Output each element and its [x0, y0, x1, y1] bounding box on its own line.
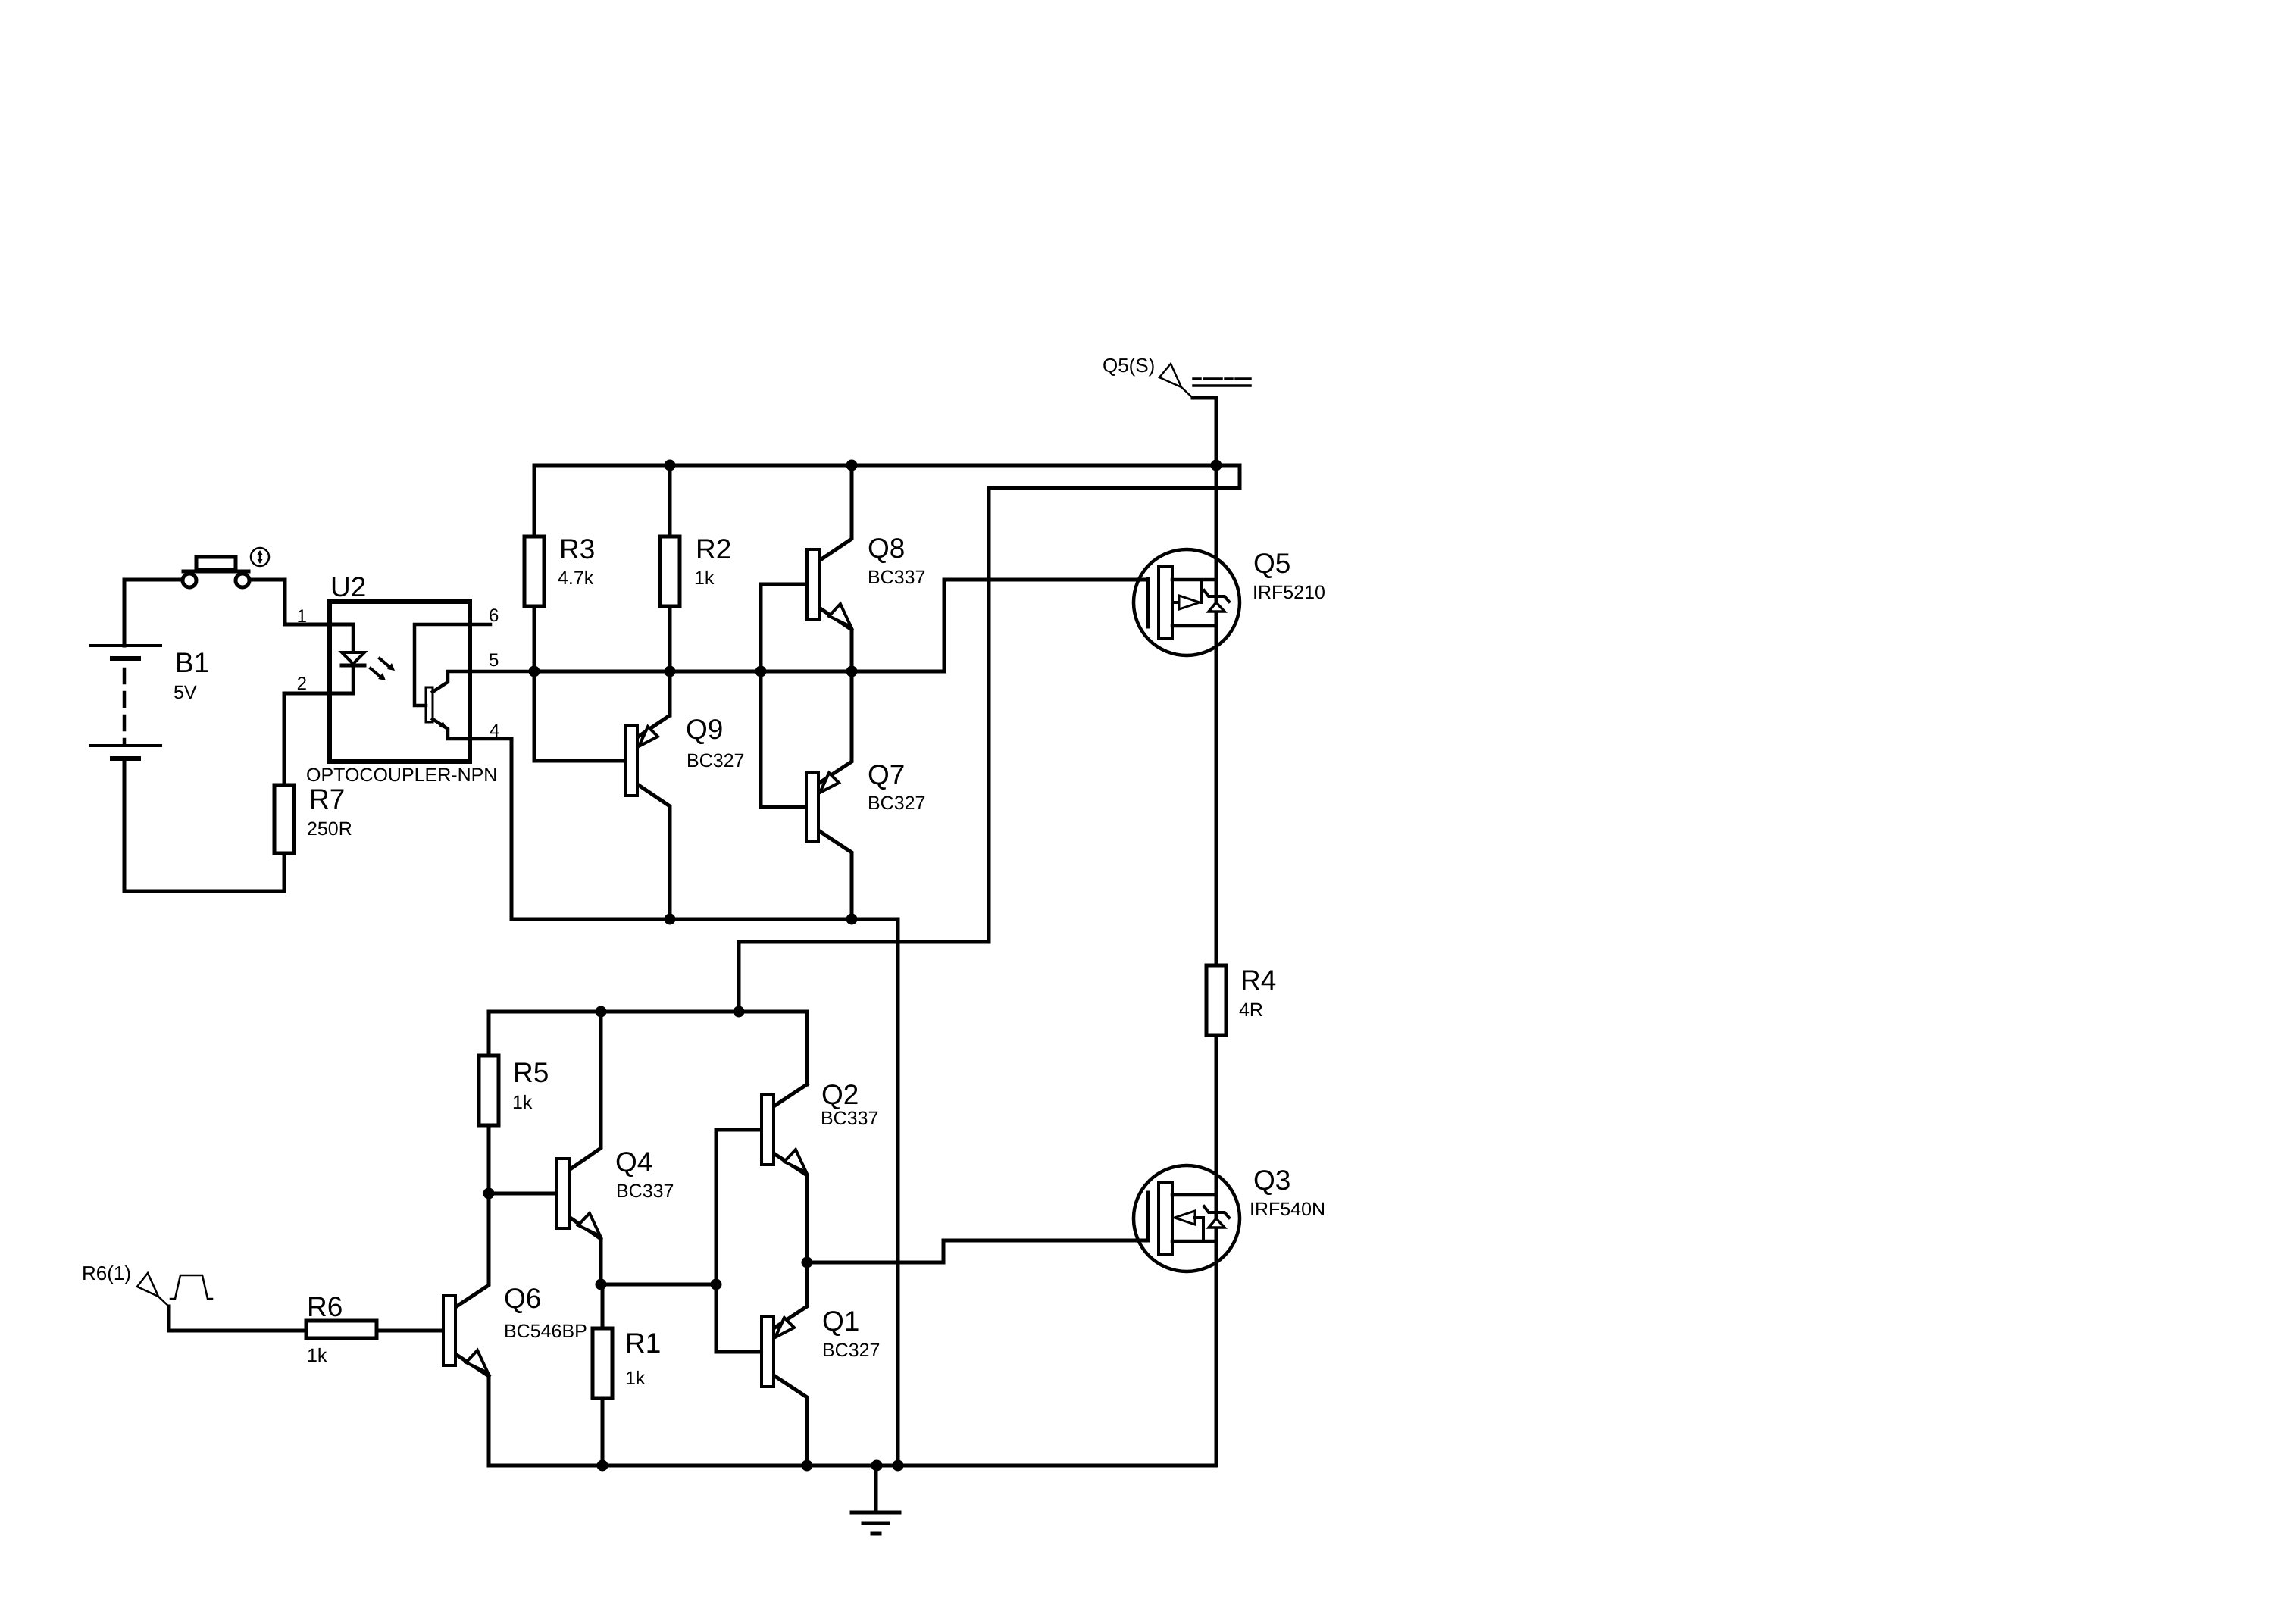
resistor R5 1k — [479, 1056, 499, 1125]
U2 base wire to pin 6 — [414, 624, 490, 705]
ground bar 3 — [872, 1532, 880, 1536]
Q1 collector — [774, 1375, 807, 1465]
resistor R1 1k — [593, 1328, 612, 1398]
Q5(S) dc marker dashed — [1193, 377, 1250, 380]
Q1 emitter — [774, 1262, 807, 1328]
Q5(S) wire stub — [1193, 398, 1216, 465]
Q1 bar — [762, 1317, 774, 1387]
transistor Q4 BC337 — [489, 1012, 601, 1284]
button terminal circle right — [236, 574, 249, 587]
battery B1 — [90, 580, 182, 759]
Q3 substrate arrow — [1175, 1211, 1195, 1225]
svg-text:1k: 1k — [307, 1345, 327, 1366]
lower rail node — [489, 1012, 807, 1084]
Q9 collector — [637, 784, 670, 919]
Q6 emitter — [455, 1354, 489, 1376]
Q3 drain stub — [1172, 1193, 1216, 1197]
U2 box — [330, 602, 470, 762]
svg-text:2: 2 — [297, 674, 307, 694]
svg-text:5V: 5V — [174, 682, 197, 703]
ground stub — [874, 1465, 878, 1512]
Q2 emitter arrow — [784, 1150, 806, 1172]
Q7 emitter — [818, 671, 852, 784]
Q4 emitter arrow — [578, 1213, 600, 1236]
junction R2 bottom / Q9 emitter — [665, 666, 676, 677]
svg-text:4.7k: 4.7k — [558, 568, 594, 589]
Q3 channel bar — [1159, 1183, 1172, 1255]
Q3 body diode cathode — [1204, 1206, 1229, 1218]
resistor R7 250R — [274, 785, 294, 853]
junction U2 pin5 / R3 node — [529, 666, 540, 677]
Q5 gate entry — [1134, 578, 1148, 582]
Q2 bar — [762, 1095, 774, 1165]
node rail pin5 y886 — [534, 670, 852, 674]
Q6 emitter arrow — [466, 1350, 488, 1373]
U2 LED cathode wire — [352, 665, 355, 693]
rail y1213 pin4 node and drop to ground — [511, 739, 898, 1465]
junction lower rail / feed from upper block — [734, 1006, 745, 1018]
svg-text:BC327: BC327 — [822, 1340, 880, 1361]
top rail VCC-upper with jog to lower block — [534, 465, 1240, 1012]
svg-text:Q1: Q1 — [822, 1306, 859, 1337]
Q8 emitter arrow — [829, 604, 851, 627]
junction ground rail / Q1 collector — [802, 1460, 813, 1472]
U2 LED diode — [342, 652, 364, 664]
ground symbol — [852, 1465, 899, 1534]
U2 emitter arrow — [439, 721, 448, 729]
svg-text:B1: B1 — [175, 647, 209, 678]
R6(1) probe triangle — [137, 1273, 158, 1297]
svg-text:Q7: Q7 — [868, 759, 905, 790]
svg-text:BC337: BC337 — [616, 1181, 674, 1202]
ground bar 2 — [863, 1522, 888, 1525]
battery plate short top — [112, 656, 139, 661]
Q7 base wire — [761, 671, 806, 807]
svg-text:1k: 1k — [694, 568, 715, 589]
wire Q8/Q7 node to Q5 gate — [852, 580, 1148, 671]
Q3 gate entry — [1134, 1239, 1148, 1243]
junction Q8/Q7 emitters to Q5 gate — [846, 666, 858, 677]
Q2 emitter — [774, 1153, 807, 1262]
svg-text:Q4: Q4 — [615, 1146, 652, 1178]
button terminal circle left — [183, 574, 196, 587]
svg-text:Q3: Q3 — [1253, 1165, 1290, 1196]
junction rail y1213 / Q9 collector — [665, 914, 676, 925]
Q5 drain-source line inside — [1215, 549, 1218, 655]
junction lower rail / Q4 collector — [596, 1006, 607, 1018]
U2 light arrow 1 — [380, 658, 389, 667]
U2 phototransistor base bar — [426, 687, 433, 722]
R1 chain — [601, 1284, 605, 1465]
Q1 emitter arrow — [775, 1318, 794, 1337]
battery plate short bottom — [112, 756, 139, 761]
svg-text:R5: R5 — [513, 1057, 549, 1088]
push button SW — [183, 548, 269, 587]
optocoupler U2 — [330, 602, 534, 762]
svg-text:R7: R7 — [309, 784, 345, 815]
svg-text:OPTOCOUPLER-NPN: OPTOCOUPLER-NPN — [306, 765, 497, 786]
Q3 drain-source line inside — [1215, 1165, 1218, 1271]
main vertical drain line x1605 and ground rail — [489, 465, 1216, 1465]
svg-text:Q5: Q5 — [1253, 548, 1290, 579]
R5 chain down to Q6 collector — [455, 1012, 489, 1307]
svg-text:4: 4 — [490, 721, 499, 741]
junction top rail / R2 — [665, 460, 676, 471]
battery plate long top — [90, 644, 161, 647]
Q6 bar — [443, 1296, 455, 1365]
svg-text:Q6: Q6 — [504, 1283, 541, 1314]
node wire y1695 Q4emitter-R1-bases — [601, 1283, 716, 1287]
Q5 gate electrode — [1146, 579, 1150, 627]
button actuator — [196, 557, 236, 570]
svg-text:Q9: Q9 — [686, 714, 723, 745]
Q7 bar — [806, 772, 818, 842]
Q8 emitter — [819, 608, 852, 671]
Q3 circle — [1134, 1165, 1240, 1271]
Q4 bar — [557, 1159, 569, 1228]
svg-text:1k: 1k — [625, 1368, 646, 1389]
resistor R4 4R — [1206, 965, 1226, 1035]
terminal Q5(S) probe — [1159, 364, 1250, 465]
wire Q2/Q1 common base — [716, 1130, 762, 1352]
Q5(S) probe triangle — [1159, 364, 1181, 387]
svg-text:BC327: BC327 — [687, 750, 744, 771]
Q9 emitter — [637, 671, 670, 737]
R6(1) probe lead — [158, 1297, 170, 1307]
U2 collector wire to pin 5 — [433, 671, 534, 692]
svg-text:5: 5 — [489, 650, 499, 671]
Q4 collector — [569, 1012, 601, 1170]
Q5 body diode anode — [1209, 602, 1225, 612]
wire U2 pin2 to R7 — [284, 693, 353, 785]
Q9 emitter arrow — [639, 727, 658, 746]
junction Q4 emitter / R1 top — [596, 1279, 607, 1290]
transistor Q1 BC327 — [762, 1262, 807, 1465]
svg-text:6: 6 — [489, 605, 499, 626]
svg-text:Q2: Q2 — [821, 1079, 859, 1110]
junction R5 / Q4 base / Q6 collector — [483, 1188, 495, 1200]
TEXT_START — [82, 354, 1325, 1389]
wire battery top to button — [124, 580, 182, 646]
Q8 collector — [819, 465, 852, 561]
mosfet Q5 IRF5210 — [1134, 549, 1240, 655]
svg-text:R2: R2 — [696, 533, 731, 565]
button contact bar — [183, 570, 249, 574]
Q3 source stub — [1172, 1240, 1216, 1243]
junction top rail / Q8 collector — [846, 460, 858, 471]
R6(1) pulse icon — [170, 1275, 212, 1299]
junction rail y1213 / Q7 collector — [846, 914, 858, 925]
junction top rail / Q5 source — [1211, 460, 1222, 471]
resistor R6 1k — [306, 1321, 377, 1338]
svg-text:1: 1 — [297, 606, 307, 627]
wire input to R6 to Q6 base — [169, 1306, 443, 1331]
Q5 circle — [1134, 549, 1240, 655]
Q5 channel bar — [1159, 567, 1172, 639]
wire output node to Q3 gate — [807, 1240, 1134, 1262]
svg-text:BC337: BC337 — [868, 567, 925, 588]
Q5 substrate arrow — [1172, 601, 1179, 604]
svg-text:Q5(S): Q5(S) — [1103, 354, 1155, 377]
Q5 source stub — [1172, 624, 1216, 628]
mosfet Q3 IRF540N — [1134, 1165, 1240, 1271]
svg-text:IRF5210: IRF5210 — [1253, 582, 1325, 603]
wire button to U2 pin1 — [249, 580, 353, 624]
Q7 collector — [818, 830, 852, 919]
svg-text:BC327: BC327 — [868, 793, 925, 814]
svg-text:Q8: Q8 — [868, 533, 905, 564]
U2 LED anode wire — [352, 624, 355, 652]
resistor R2 1k — [660, 536, 680, 606]
junction output node Q2/Q1 emitters — [802, 1257, 813, 1268]
terminal R6(1) input probe — [137, 1273, 212, 1307]
transistor Q7 BC327 — [761, 671, 852, 919]
Q5(S) dc marker solid — [1193, 384, 1250, 387]
Q5 drain stub — [1172, 578, 1216, 582]
Q3 gate electrode — [1146, 1193, 1150, 1240]
svg-text:BC337: BC337 — [821, 1108, 878, 1129]
transistor Q6 BC546BP — [443, 1296, 489, 1376]
ground bar 1 — [852, 1511, 899, 1515]
R2 chain — [668, 465, 672, 715]
junction ground rail / R1 bottom — [597, 1460, 608, 1472]
transistor Q8 BC337 — [761, 465, 852, 671]
Q3 body diode anode — [1209, 1218, 1225, 1228]
svg-text:R1: R1 — [625, 1328, 661, 1359]
svg-text:R6(1): R6(1) — [82, 1262, 131, 1284]
svg-text:1k: 1k — [512, 1092, 533, 1113]
transistor Q9 BC327 — [625, 671, 670, 919]
U2 light arrow 2 — [371, 668, 380, 677]
Q4 base wire — [489, 1192, 557, 1196]
svg-text:R3: R3 — [559, 533, 595, 565]
Q5 body diode cathode — [1204, 590, 1229, 602]
junction ground rail / drop from rail y1213 — [893, 1460, 904, 1472]
svg-text:U2: U2 — [330, 571, 366, 602]
junction ground rail / ground stub — [871, 1460, 883, 1472]
svg-text:250R: 250R — [307, 818, 352, 840]
svg-text:R6: R6 — [307, 1291, 343, 1322]
Q8 bar — [807, 549, 819, 619]
Q9 bar — [625, 726, 637, 796]
Q2 collector — [774, 1084, 807, 1106]
svg-text:IRF540N: IRF540N — [1250, 1199, 1325, 1220]
svg-text:R4: R4 — [1240, 965, 1276, 996]
Q7 emitter arrow — [820, 773, 839, 793]
Q4 emitter — [569, 1217, 601, 1284]
resistor R3 4.7k — [524, 536, 544, 606]
transistor Q2 BC337 — [762, 1084, 807, 1262]
junction Q8/Q7 common base — [755, 666, 767, 677]
battery plate long bottom — [90, 744, 161, 747]
Q8 base wire — [761, 584, 807, 671]
Q5(S) probe lead — [1181, 387, 1193, 399]
U2 emitter wire to pin 4 — [433, 719, 511, 739]
button actuate icon circle — [251, 548, 269, 566]
svg-text:BC546BP: BC546BP — [504, 1321, 587, 1342]
svg-text:4R: 4R — [1239, 999, 1263, 1021]
battery dashed cell link — [123, 669, 127, 745]
junction Q1/Q2 base tie — [711, 1279, 722, 1290]
wire R7 bottom to battery minus — [124, 759, 284, 891]
R3 chain: rail to Q9 base — [534, 465, 625, 761]
